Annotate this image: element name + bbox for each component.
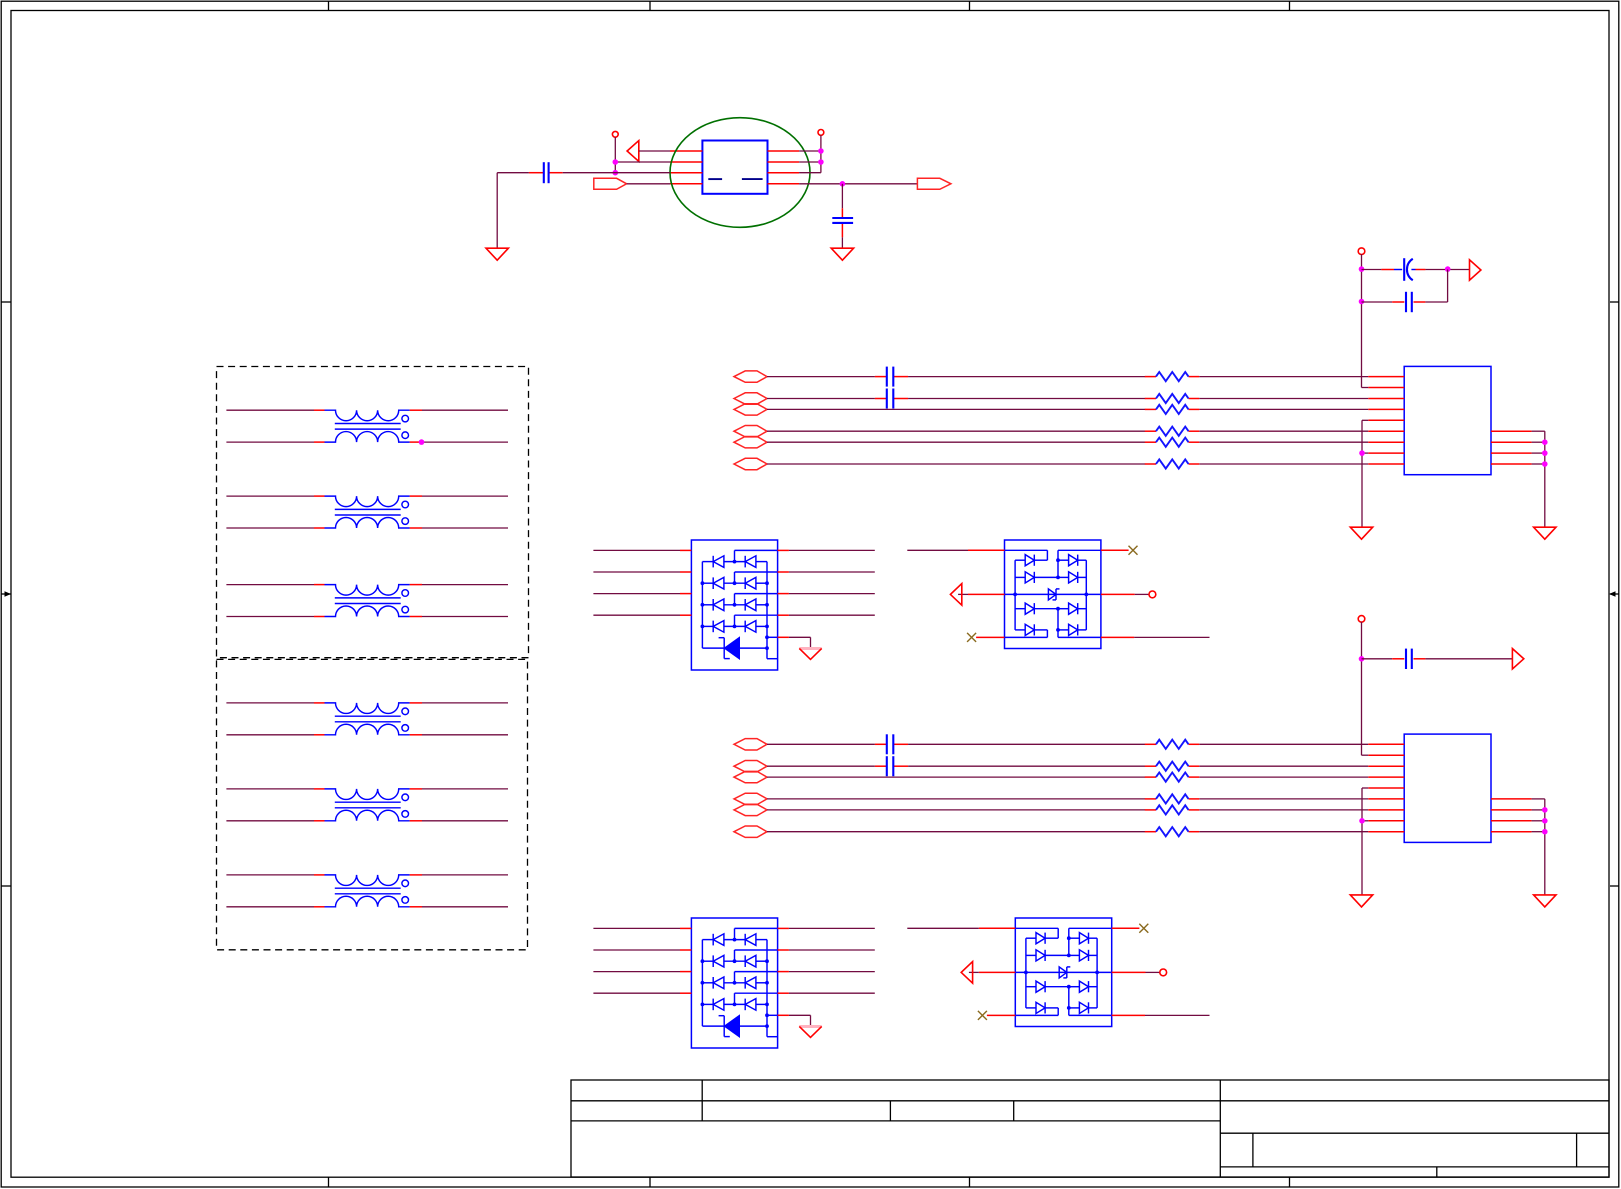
no-connect X	[978, 924, 1148, 1020]
TVS diode array D1	[680, 540, 789, 670]
junction	[1542, 807, 1548, 834]
open pin circle	[1160, 969, 1167, 976]
common-mode choke T2	[314, 496, 422, 528]
wire	[1362, 622, 1369, 755]
input port connector J0a	[594, 178, 627, 189]
resistor R2-6	[1145, 805, 1200, 814]
wire	[226, 496, 508, 528]
wire	[627, 183, 670, 185]
junction	[1359, 818, 1365, 824]
power arrow	[1512, 649, 1523, 669]
wire	[907, 928, 1209, 1015]
U1 pins	[1368, 377, 1531, 464]
capacitor C0b	[832, 218, 853, 223]
junction	[613, 159, 619, 175]
wire	[907, 550, 1209, 637]
output arrow port	[627, 141, 639, 162]
polarized capacitor C1a	[1394, 258, 1416, 281]
output port connector J0b	[917, 178, 951, 189]
junction	[419, 439, 425, 445]
resistor R1-3	[1145, 405, 1200, 414]
wire	[789, 637, 811, 647]
wire	[1362, 270, 1448, 303]
ground G2b	[1534, 895, 1556, 907]
wire	[226, 875, 508, 907]
capacitor C1-2	[887, 389, 894, 409]
wire	[1362, 254, 1369, 387]
ground G0b	[831, 248, 853, 260]
junction	[1359, 266, 1365, 304]
wire	[767, 831, 1368, 833]
junction	[1359, 656, 1365, 662]
ground G0a	[486, 248, 508, 260]
diode bridge array D2	[979, 918, 1146, 1027]
U2 pins	[1368, 744, 1531, 831]
open pin circle	[1358, 248, 1365, 255]
resistor R2-5	[1145, 794, 1200, 803]
wire	[767, 809, 1368, 811]
common-mode choke T4	[314, 703, 422, 735]
wire	[226, 585, 508, 617]
wire	[799, 183, 917, 185]
wire	[1362, 269, 1470, 271]
capacitor C1b	[1406, 292, 1412, 312]
open pin circle	[818, 130, 824, 136]
resistor R1-6	[1145, 438, 1200, 447]
port connector J1-2	[734, 393, 767, 404]
junction	[1359, 450, 1365, 456]
wire	[615, 137, 670, 173]
resistor R1-5	[1145, 427, 1200, 436]
resistor R1-8	[1145, 459, 1200, 468]
port connector J2-3	[734, 771, 767, 782]
ground G1a	[1350, 527, 1372, 539]
wire	[799, 135, 821, 172]
wire	[767, 398, 1368, 400]
wire	[639, 150, 670, 152]
common-mode choke T5	[314, 789, 422, 821]
open pin circle	[612, 131, 618, 137]
ground G1b	[1534, 527, 1556, 539]
capacitor C2-2	[887, 756, 894, 776]
resistor R2-0	[1145, 740, 1200, 749]
power arrow	[1470, 260, 1481, 280]
junction	[1445, 266, 1451, 272]
open pin circle	[1149, 591, 1156, 598]
wire	[767, 441, 1368, 443]
wire	[767, 776, 1368, 778]
port connector J2-5	[734, 793, 767, 804]
wire	[1532, 799, 1545, 895]
shield group box 1	[217, 367, 529, 658]
capacitor C2a	[1406, 649, 1412, 669]
port connector J1-8	[734, 458, 767, 469]
junction	[818, 148, 824, 165]
ethernet transceiver U1	[1404, 366, 1491, 474]
isolation module U0	[670, 141, 799, 194]
ground G2	[799, 1026, 821, 1037]
wire	[226, 410, 508, 442]
wire	[767, 408, 1368, 410]
wire	[226, 703, 508, 735]
resistor R1-0	[1145, 372, 1200, 381]
port connector J1-0	[734, 371, 767, 382]
open pin circle	[1358, 616, 1365, 623]
port connector J2-8	[734, 826, 767, 837]
ground G1	[799, 648, 821, 659]
port connector J1-3	[734, 404, 767, 415]
port connector J1-6	[734, 437, 767, 448]
port connector J2-2	[734, 761, 767, 772]
capacitor C1-1	[887, 367, 894, 387]
wire	[767, 430, 1368, 432]
junction	[1542, 439, 1548, 466]
wire	[789, 1015, 811, 1025]
junction	[840, 181, 846, 187]
wire	[1362, 420, 1368, 527]
wire	[767, 376, 1368, 378]
wire	[1362, 788, 1368, 895]
wire	[497, 173, 670, 249]
wire	[1532, 431, 1545, 527]
input arrow port	[961, 962, 972, 984]
wire	[767, 463, 1368, 465]
wire	[226, 789, 508, 821]
common-mode choke T6	[314, 875, 422, 907]
common-mode choke T1	[314, 410, 422, 442]
port connector J2-0	[734, 739, 767, 750]
resistor R1-2	[1145, 394, 1200, 403]
capacitor C2-1	[887, 734, 894, 754]
wire	[593, 550, 874, 615]
highlight ellipse	[670, 118, 810, 228]
wire	[593, 928, 874, 993]
port connector J1-5	[734, 426, 767, 437]
wire	[767, 765, 1368, 767]
TVS diode array D2	[680, 918, 789, 1048]
ethernet transceiver U2	[1404, 734, 1491, 842]
capacitor C0a	[544, 162, 549, 183]
wire	[767, 798, 1368, 800]
shield group box 2	[217, 659, 528, 949]
resistor R2-3	[1145, 773, 1200, 782]
resistor R2-2	[1145, 762, 1200, 771]
input arrow port	[950, 584, 961, 606]
wire	[1362, 658, 1513, 660]
port connector J2-6	[734, 804, 767, 815]
wire	[767, 743, 1368, 745]
wire	[841, 184, 843, 248]
resistor R2-8	[1145, 827, 1200, 836]
no-connect X	[967, 546, 1137, 642]
common-mode choke T3	[314, 585, 422, 617]
ground G2a	[1350, 895, 1372, 907]
diode bridge array D1	[968, 540, 1135, 649]
